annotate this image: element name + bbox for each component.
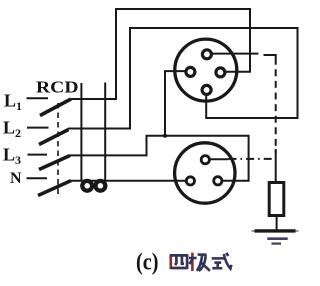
CT secondary lead 1 (80, 83, 82, 180)
PE lead into resistor (275, 149, 277, 183)
ground: fuzzy wide smear (252, 230, 299, 232)
socket X2 (1-phase 3-pin) outline (175, 143, 235, 203)
wire N stub (27, 177, 48, 179)
X1 bottom pin (202, 85, 211, 94)
wire X1 bottom pin drop (205, 96, 207, 119)
wire L1 feed: over top run to X1 right pin (71, 9, 250, 99)
resistor RE (earth resistance) (269, 183, 284, 216)
X1 right pin (216, 68, 225, 77)
wire L2 feed: inner top run to X1 bottom pin (68, 28, 298, 129)
wire X1 top pin (PE) (212, 53, 258, 55)
svg-text:N: N (10, 170, 22, 187)
CT toroid ring 2 (96, 181, 106, 191)
resistor lead to earth (276, 216, 278, 232)
wire X1 left pin down to L3 line (165, 71, 185, 136)
switch blade L2 (39, 130, 69, 145)
switch blade L1 (40, 99, 71, 116)
X1 top pin (PE) (202, 50, 211, 59)
wire L3 stub (28, 154, 48, 156)
svg-text:(c): (c) (136, 249, 159, 275)
wire N to X2 left pin (71, 180, 187, 182)
switch blade L3 (39, 156, 70, 170)
PE dashed link down (corner dash) (264, 55, 276, 65)
junction dot L3/X1 (163, 134, 167, 138)
X2 left pin (186, 177, 194, 185)
wire L1 stub (27, 97, 49, 99)
svg-text:L3: L3 (3, 145, 21, 168)
svg-text:RCD: RCD (36, 78, 79, 97)
caption char 式 (212, 253, 232, 269)
X1 left pin (186, 67, 195, 76)
wire X2 top pin (PE) solid (211, 158, 229, 160)
ground bar 2 (267, 237, 287, 240)
caption char 极 (189, 253, 210, 271)
ground bar 3 (272, 243, 282, 245)
wire X2 PE dash-dot to earth line (229, 158, 276, 160)
X2 top pin (PE) (201, 156, 209, 164)
caption char 四 (170, 255, 189, 269)
ground bar 1 (255, 229, 296, 232)
svg-text:L2: L2 (3, 118, 21, 141)
RCD trip linkage (dashed) (57, 103, 59, 196)
PE dashed link down (275, 69, 277, 153)
X2 right pin (214, 177, 222, 185)
switch blade N (38, 181, 71, 196)
socket X1 (3-phase 4-pin) outline (175, 39, 237, 101)
CT toroid ring 1 (82, 181, 92, 191)
CT secondary lead 2 (104, 83, 106, 181)
wire L3 feed: step up, across, down to X2 right pin (70, 136, 249, 181)
svg-text:L1: L1 (4, 91, 22, 114)
wire L2 stub (27, 127, 49, 129)
